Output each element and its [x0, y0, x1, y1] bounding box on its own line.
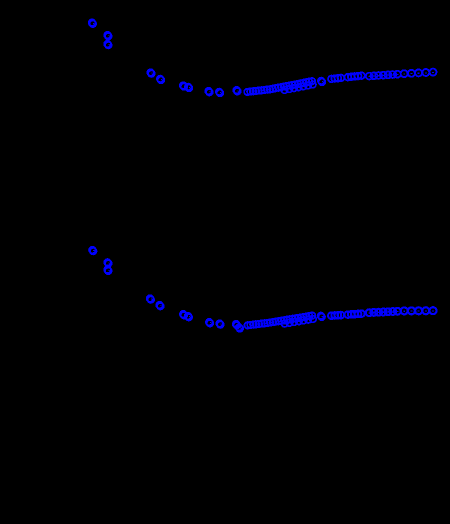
data point A46 (340.9,77.9): [338, 75, 345, 82]
data point B1 (92.8,250.5): [89, 247, 96, 255]
data point A55 (383.3,75.1): [380, 72, 387, 79]
data point B15 (253.3,324.6): [250, 321, 257, 328]
data point B16 (256.1,324.3): [253, 321, 260, 328]
data point B50 (354.5,314.2): [351, 311, 358, 318]
data point B46 (338.0,315.3): [335, 312, 342, 319]
data point B12 (321.3,316.3): [318, 313, 325, 321]
data point B51 (358.0,313.9): [355, 311, 362, 318]
data point A12 (247.5,91.9): [244, 89, 251, 96]
data point B33 (303.7,317.0): [300, 314, 307, 321]
data point A44 (334.7,78.5): [331, 75, 338, 82]
data point B3 (107.9,270.3): [104, 267, 111, 275]
data point B35 (309.3,316.0): [306, 313, 313, 320]
data point A26 (286.7,86.1): [283, 83, 290, 90]
data point B31 (298.1,317.9): [295, 315, 302, 322]
data point B49 (351.2,314.4): [348, 311, 355, 318]
data point A15 (255.9,90.9): [253, 88, 260, 95]
data point A62 (425.8,72.5): [422, 69, 429, 76]
data point B29 (292.5,318.9): [289, 316, 296, 323]
data point A23 (278.3,87.7): [275, 84, 282, 91]
data point A60 (411.4,73.3): [408, 70, 415, 77]
data point B11 (239.4,327.9): [236, 324, 243, 332]
data point A37 (289.2,89.1): [286, 86, 293, 93]
data point B8 (209.6,322.6): [206, 319, 213, 327]
data point B10 (236.5,324.6): [233, 321, 240, 329]
data point B52 (361.4,313.6): [358, 310, 365, 317]
data point B54 (373.9,312.4): [370, 309, 377, 316]
data point B39 (294.1,322.1): [291, 319, 298, 326]
data point B45 (334.7,315.5): [331, 312, 338, 319]
data point A63 (433.0,72.1): [430, 69, 437, 76]
data point A30 (297.9,83.9): [295, 81, 302, 88]
data point B58 (392.7,311.5): [389, 308, 396, 315]
data point B40 (298.8,321.3): [296, 318, 303, 325]
data point A31 (300.7,83.4): [297, 80, 304, 87]
data point B41 (303.5,320.5): [300, 317, 307, 324]
data point B60 (404.2,310.9): [401, 307, 408, 314]
data point A56 (388.0,74.8): [385, 71, 392, 78]
data point B59 (397.4,311.3): [394, 308, 401, 315]
data point A20 (269.9,89.3): [267, 86, 274, 93]
data point A32 (303.5,82.8): [300, 80, 307, 87]
data point B24 (278.5,321.2): [275, 318, 282, 325]
data point B47 (340.9,315.1): [338, 312, 345, 319]
data point B55 (378.6,312.2): [375, 309, 382, 316]
data point B61 (411.4,310.8): [408, 307, 415, 314]
data point B17 (258.9,323.9): [256, 321, 263, 328]
data point B7 (188.4,316.6): [185, 313, 192, 321]
data point A38 (293.9,88.2): [291, 85, 298, 92]
data point B57 (388.0,311.7): [385, 308, 392, 315]
data point B63 (425.8,310.8): [422, 307, 429, 314]
data point B32 (300.9,317.4): [298, 314, 305, 321]
data point A24 (281.1,87.2): [278, 84, 285, 91]
data point B25 (281.3,320.7): [278, 317, 285, 324]
data point B19 (264.5,323.3): [261, 320, 268, 327]
data point A19 (267.1,89.6): [264, 86, 271, 93]
data point B64 (433.0,310.7): [430, 307, 437, 314]
data point A48 (351.2,76.8): [348, 73, 355, 80]
data point B56 (383.3,312.0): [380, 309, 387, 316]
data point B20 (267.3,322.9): [264, 320, 271, 327]
data point B28 (289.7,319.3): [286, 316, 293, 323]
data point A16 (258.7,90.6): [255, 87, 262, 94]
data point B4 (150.4,299.0): [147, 295, 154, 303]
series 2 (bottom curve): [89, 247, 436, 332]
data point A14 (253.1,91.3): [250, 88, 257, 95]
data point B13 (247.7,325.3): [244, 322, 251, 329]
data point B27 (286.9,319.8): [284, 316, 291, 323]
data point A50 (358.0,76.1): [355, 73, 362, 80]
data point A57 (392.7,74.5): [389, 71, 396, 78]
data point A29 (295.1,84.4): [292, 81, 299, 88]
data point A42 (312.7,84.5): [309, 81, 316, 88]
data point A11 (321.6,81.4): [318, 78, 325, 86]
data point A22 (275.5,88.2): [272, 85, 279, 92]
data point B5 (160.0,305.6): [156, 302, 163, 310]
data point B26 (284.1,320.2): [281, 317, 288, 324]
data point A40 (303.3,86.4): [300, 83, 307, 90]
data point A58 (397.4,74.2): [394, 71, 401, 78]
data point A49 (354.5,76.4): [351, 73, 358, 80]
data point B30 (295.3,318.4): [292, 315, 299, 322]
data point A61 (418.6,72.9): [415, 69, 422, 76]
data point A4 (151.0,73.0): [147, 69, 154, 77]
data point A51 (361.4,75.7): [358, 72, 365, 79]
data point B34 (306.5,316.5): [303, 313, 310, 320]
data point B62 (418.6,310.8): [415, 307, 422, 314]
data point A34 (309.1,81.7): [306, 78, 313, 85]
data point B43 (312.9,319.0): [310, 316, 317, 323]
data point B42 (308.2,319.7): [305, 316, 312, 323]
data point A39 (298.6,87.3): [295, 84, 302, 91]
data point B37 (284.7,323.7): [281, 320, 288, 327]
data point A52 (369.2,76.1): [366, 73, 373, 80]
data point A36 (284.5,90.0): [281, 87, 288, 94]
data point A10 (237.0,90.7): [233, 87, 240, 95]
data point B9 (220.0,324.0): [216, 320, 223, 328]
data point A33 (306.3,82.3): [303, 79, 310, 86]
data point B53 (369.2,312.7): [366, 309, 373, 316]
data point A9 (219.6,92.4): [216, 89, 223, 97]
data point B21 (270.1,322.6): [267, 319, 274, 326]
data point B23 (275.7,321.6): [272, 318, 279, 325]
data point B36 (312.1,315.6): [309, 312, 316, 319]
data point A45 (338.0,78.2): [335, 75, 342, 82]
data point A35 (311.9,81.2): [309, 78, 316, 85]
data point A25 (283.9,86.6): [281, 83, 288, 90]
data point A3 (107.9,44.5): [104, 41, 111, 49]
data point B22 (272.9,322.1): [270, 319, 277, 326]
data point A1 (92.4,23.2): [89, 19, 96, 27]
data point A28 (292.3,85.0): [289, 82, 296, 89]
data point B2 (107.9,262.9): [104, 259, 111, 267]
data point A18 (264.3,90.0): [261, 87, 268, 94]
data point B6 (183.6,314.6): [180, 311, 187, 319]
data point A43 (331.4,78.9): [328, 76, 335, 83]
data point A7 (188.6,87.4): [185, 84, 192, 92]
data point A2 (107.9,35.6): [104, 32, 111, 40]
data point A59 (404.2,73.7): [401, 70, 408, 77]
data point B44 (331.4,315.7): [328, 312, 335, 319]
data point A54 (378.6,75.5): [375, 72, 382, 79]
data point B18 (261.7,323.6): [258, 320, 265, 327]
data point A6 (183.6,86.0): [180, 82, 187, 90]
data point A5 (160.6,79.4): [157, 76, 164, 84]
series 1 (top curve): [89, 19, 437, 96]
data point A27 (289.5,85.5): [286, 82, 293, 89]
data point B14 (250.5,325.0): [247, 322, 254, 329]
data point A8 (209.0,91.6): [205, 88, 212, 96]
data point A17 (261.5,90.3): [258, 87, 265, 94]
data point A41 (308.0,85.5): [305, 82, 312, 89]
data point B48 (347.9,314.6): [345, 311, 352, 318]
data point A47 (347.9,77.1): [345, 74, 352, 81]
data point A21 (272.7,88.8): [269, 85, 276, 92]
data point A53 (373.9,75.8): [371, 72, 378, 79]
data point B38 (289.4,322.9): [286, 320, 293, 327]
data point A13 (250.3,91.6): [247, 88, 254, 95]
